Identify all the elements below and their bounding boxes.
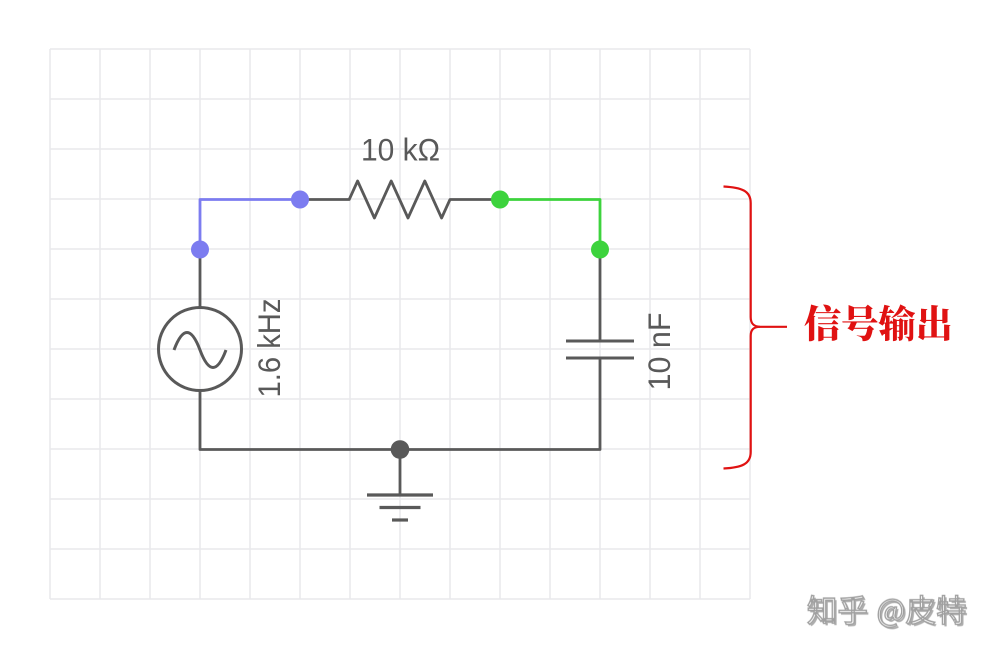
svg-text:10 kΩ: 10 kΩ	[361, 133, 440, 168]
svg-text:1.6 kHz: 1.6 kHz	[252, 299, 287, 398]
svg-text:10 nF: 10 nF	[642, 313, 677, 391]
